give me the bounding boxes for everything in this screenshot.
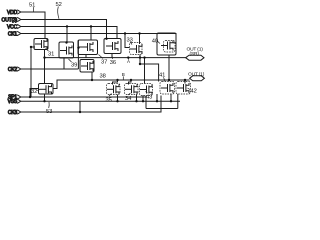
svg-text:VSS: VSS bbox=[8, 99, 18, 105]
output OUT(1)(SR) bbox=[186, 46, 204, 60]
transistor T34 bbox=[125, 84, 139, 95]
leader 42 bbox=[188, 88, 191, 90]
wire t35 gate drop bbox=[113, 80, 118, 85]
node dot A bbox=[127, 56, 129, 58]
wire t34 gate drop bbox=[129, 80, 132, 85]
node dot t33 bottom bbox=[139, 56, 141, 58]
wire t34 bottom bbox=[136, 95, 138, 102]
leader 43 bbox=[146, 92, 148, 94]
svg-text:36: 36 bbox=[110, 60, 116, 66]
svg-text:CK1: CK1 bbox=[8, 31, 18, 37]
transistor T37 bbox=[78, 40, 98, 55]
node dot vss t34 bbox=[135, 100, 137, 102]
rail CK1 bbox=[21, 34, 176, 43]
node dot out1 t35 bbox=[116, 79, 118, 81]
port SP1 bbox=[8, 95, 21, 101]
transistor T40 bbox=[157, 33, 176, 55]
node dot out1 t34 bbox=[130, 79, 132, 81]
wire node B horizontal bbox=[53, 80, 190, 89]
node dot t43 drain bbox=[143, 56, 145, 58]
leader 41 bbox=[164, 77, 166, 81]
wire vcc tap to T39 bbox=[66, 27, 68, 43]
transistor T33 bbox=[130, 43, 143, 55]
wire t43 bottom bbox=[142, 96, 144, 102]
leader 52 bbox=[58, 7, 59, 19]
node dot t31 left bbox=[30, 46, 32, 48]
node dot sp1 gate bbox=[29, 96, 31, 98]
leader 39 bbox=[69, 59, 72, 62]
wire bottom interconnect bbox=[146, 94, 178, 109]
wire T39 bottom down bbox=[63, 58, 65, 69]
leader 53 bbox=[48, 102, 50, 108]
port CK1 bbox=[8, 31, 21, 37]
svg-text:51: 51 bbox=[29, 3, 35, 9]
leader 31 bbox=[46, 49, 49, 52]
node dot A-wire left bbox=[43, 56, 45, 58]
ref numerals bbox=[29, 2, 197, 115]
node dot vss t35 bbox=[116, 100, 118, 102]
wire SP1 to T32 gate bbox=[30, 89, 39, 98]
node dot t36 top bbox=[105, 38, 107, 40]
wire node A horizontal bbox=[45, 57, 186, 59]
node dot ck1 t33gate bbox=[124, 32, 126, 34]
wire t42 drain up bbox=[184, 80, 186, 84]
transistor T38 bbox=[80, 60, 94, 73]
svg-text:40: 40 bbox=[152, 38, 158, 44]
svg-text:31: 31 bbox=[48, 52, 54, 58]
leader B bbox=[122, 76, 124, 80]
wire T38 bottom to node B bbox=[91, 72, 93, 80]
rail CK2 bbox=[21, 68, 79, 70]
leader 34 bbox=[128, 93, 131, 95]
node dot w2 bbox=[139, 63, 141, 65]
port VSS bbox=[8, 99, 21, 105]
svg-text:42: 42 bbox=[191, 89, 197, 95]
wire T32 source down to VSS bbox=[44, 94, 46, 101]
wire T36 bottom down bbox=[111, 54, 113, 58]
svg-text:52: 52 bbox=[56, 2, 62, 8]
svg-text:43: 43 bbox=[146, 95, 152, 101]
svg-text:32: 32 bbox=[31, 89, 37, 95]
wire ck1 tap to T33 gate bbox=[125, 34, 130, 48]
svg-text:CK2: CK2 bbox=[8, 67, 18, 73]
wire ck1 tap to T33 drain bbox=[139, 34, 141, 45]
rail VCC bbox=[21, 27, 117, 39]
leader 32 bbox=[37, 90, 39, 91]
svg-text:37: 37 bbox=[101, 60, 107, 66]
leader 51 bbox=[32, 7, 34, 12]
port VCC bbox=[7, 24, 21, 30]
svg-text:33: 33 bbox=[127, 38, 133, 44]
port VDD bbox=[7, 10, 21, 16]
wire t35 bottom bbox=[117, 95, 119, 102]
rail VDD bbox=[21, 12, 45, 39]
node dot vss t32 bbox=[43, 100, 45, 102]
svg-text:35: 35 bbox=[106, 97, 112, 103]
transistor T42 bbox=[176, 82, 191, 95]
wire t41 bottom bbox=[157, 94, 171, 101]
node dot ck3 tap bbox=[79, 111, 81, 113]
port CK2 bbox=[8, 67, 21, 73]
svg-text:OUT(3): OUT(3) bbox=[2, 17, 18, 23]
transistor T35 bbox=[107, 84, 121, 95]
node dot out1 t42 bbox=[184, 79, 186, 81]
wire t40 source down to OUT(1) bbox=[168, 55, 170, 80]
leader A bbox=[128, 58, 130, 60]
rail SP1 bbox=[21, 96, 146, 98]
wire T37 gate vertical bbox=[78, 40, 81, 69]
node dot t37 left bbox=[77, 47, 79, 49]
node dot t38 bottom bbox=[91, 79, 93, 81]
transistor T41 bbox=[160, 82, 175, 95]
node dot vcc-37 bbox=[90, 25, 92, 27]
node dot t39 top bbox=[65, 41, 67, 43]
transistor T31 bbox=[34, 39, 48, 50]
leader 33 bbox=[130, 42, 132, 45]
node dot out1 t40 bbox=[168, 79, 170, 81]
port OUT(3) bbox=[2, 17, 21, 23]
wire T33 bottom down bbox=[139, 55, 141, 65]
svg-text:38: 38 bbox=[100, 73, 106, 79]
leader 40 bbox=[157, 41, 160, 44]
leader 35 bbox=[109, 94, 112, 97]
transistor T43 bbox=[140, 84, 153, 96]
output OUT(1) bbox=[188, 71, 205, 81]
svg-text:CK3: CK3 bbox=[8, 110, 18, 116]
transistor T39 bbox=[59, 42, 74, 58]
transistor T36 bbox=[104, 39, 121, 54]
wire CK3 tap up bbox=[79, 101, 81, 112]
svg-text:39: 39 bbox=[71, 63, 77, 69]
svg-text:VDD: VDD bbox=[7, 10, 18, 16]
wire T37 bottom down bbox=[85, 55, 87, 58]
node dot vss 157 bbox=[156, 100, 158, 102]
node dot vcc-39 bbox=[66, 25, 68, 27]
svg-text:53: 53 bbox=[46, 109, 52, 115]
node dot vss 143 bbox=[142, 100, 144, 102]
node dot ck1 t33drain bbox=[138, 32, 140, 34]
wire T31 left source down to SP1 bbox=[31, 47, 35, 97]
wire T31 bottom through to T32 bbox=[44, 50, 46, 84]
rail VSS bbox=[21, 100, 180, 102]
leader 36 bbox=[111, 55, 114, 60]
node dot vss 171 bbox=[170, 100, 172, 102]
svg-text:41: 41 bbox=[159, 73, 165, 79]
leader 37 bbox=[99, 55, 104, 59]
svg-text:VCC: VCC bbox=[7, 24, 18, 30]
rail OUT(3) bbox=[21, 20, 107, 39]
wire gate feed y64 bbox=[140, 64, 159, 82]
svg-text:B: B bbox=[122, 72, 125, 77]
port CK3 bbox=[8, 110, 21, 116]
transistor T32 bbox=[39, 84, 54, 95]
wire vcc tap to T37 bbox=[90, 27, 92, 41]
rail CK3 bbox=[21, 96, 161, 113]
svg-text:34: 34 bbox=[125, 96, 132, 102]
wire T43 drain drop bbox=[144, 58, 146, 84]
svg-text:(SR): (SR) bbox=[190, 51, 200, 57]
